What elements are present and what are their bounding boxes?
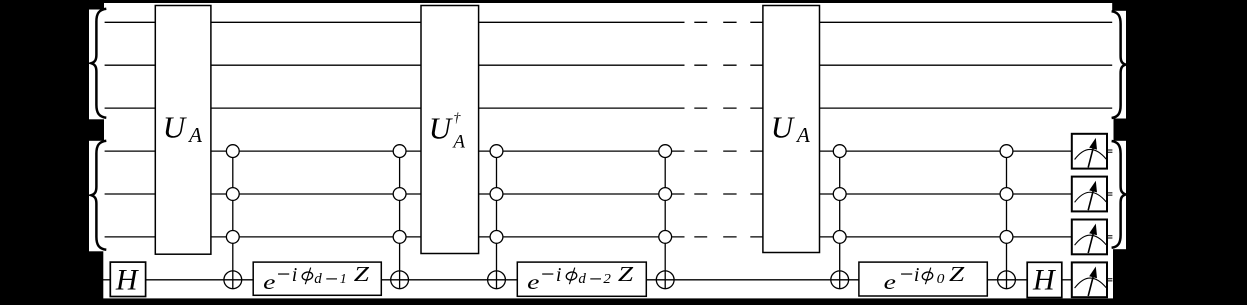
wire ancilla segment 2 bbox=[146, 279, 254, 281]
svg-text:0: 0 bbox=[937, 272, 945, 287]
control column 6 open circle on q4 bbox=[1000, 145, 1013, 158]
phase gate box e^-i*phi_(d-1)*Z bbox=[253, 262, 381, 295]
measurement meter M3 on q6 bbox=[1072, 220, 1107, 255]
svg-text:−: − bbox=[539, 262, 555, 288]
unitary box U_A-dagger bbox=[421, 6, 479, 254]
control column 1 open circle on q5 bbox=[226, 188, 239, 201]
wire q2 segment 2 bbox=[211, 64, 422, 66]
wire q2 segment 4 bbox=[819, 64, 1112, 66]
svg-text:d: d bbox=[314, 271, 322, 287]
wire q1 segment 1 bbox=[105, 21, 156, 23]
left curly brace lower group bbox=[91, 141, 106, 250]
wire ancilla segment 1 bbox=[103, 279, 111, 281]
svg-text:Z: Z bbox=[354, 262, 370, 286]
control column 1 vertical wire bbox=[232, 151, 234, 289]
black mask mid-right notch bbox=[1114, 119, 1127, 141]
control column 5 open circle on q4 bbox=[833, 145, 846, 158]
svg-text:i: i bbox=[556, 264, 562, 286]
right curly brace lower group bbox=[1112, 141, 1126, 248]
label e^-i*phi_(d-2)*Z bbox=[527, 262, 633, 294]
phase gate box e^-i*phi_(d-2)*Z bbox=[517, 262, 646, 296]
black mask right margin bbox=[1126, 0, 1247, 305]
wire q1 segment 2 bbox=[211, 21, 422, 23]
svg-text:e: e bbox=[527, 270, 539, 294]
measurement meter M1 on q4 bbox=[1072, 134, 1107, 169]
svg-text:H: H bbox=[1032, 264, 1057, 297]
classical double wire after M3 bbox=[1107, 236, 1112, 238]
control column 2 vertical wire bbox=[399, 151, 401, 289]
wire q2 dashed segment bbox=[694, 64, 763, 66]
svg-text:e: e bbox=[884, 270, 896, 294]
measurement meter M4 on ancilla bbox=[1072, 262, 1107, 297]
wire q5 dashed segment bbox=[694, 193, 763, 195]
control column 4 open circle on q5 bbox=[659, 188, 672, 201]
left curly brace upper group bbox=[91, 9, 106, 118]
svg-text:Z: Z bbox=[949, 262, 965, 286]
wire ancilla segment 3 bbox=[381, 279, 517, 281]
measurement meter M2 on q5 bbox=[1072, 177, 1107, 212]
control column 2 open circle on q4 bbox=[393, 145, 406, 158]
control column 3 vertical wire bbox=[496, 151, 498, 289]
wire q4 segment 4 bbox=[819, 150, 1072, 152]
svg-text:−: − bbox=[324, 267, 340, 292]
control column 6 open circle on q5 bbox=[1000, 188, 1013, 201]
wire ancilla segment 6 bbox=[1062, 279, 1072, 281]
control column 2 XOR target on ancilla bbox=[391, 271, 409, 289]
black mask mid-left notch bbox=[89, 119, 104, 141]
black mask bottom-left notch bbox=[89, 251, 103, 305]
control column 1 open circle on q4 bbox=[226, 145, 239, 158]
wire q6 segment 3 bbox=[478, 236, 684, 238]
wire q1 segment 4 bbox=[819, 21, 1112, 23]
svg-text:2: 2 bbox=[603, 271, 611, 286]
control column 5 XOR target on ancilla bbox=[831, 271, 849, 289]
wire q6 segment 1 bbox=[105, 236, 156, 238]
unitary box U_A second bbox=[763, 6, 820, 253]
wire q4 segment 1 bbox=[105, 150, 156, 152]
svg-text:A: A bbox=[451, 132, 465, 153]
svg-text:†: † bbox=[453, 111, 461, 126]
unitary box U_A first bbox=[155, 6, 211, 255]
wire q6 segment 4 bbox=[819, 236, 1072, 238]
control column 3 open circle on q5 bbox=[490, 188, 503, 201]
control column 5 open circle on q5 bbox=[833, 188, 846, 201]
wire q2 segment 3 bbox=[478, 64, 684, 66]
control column 4 open circle on q4 bbox=[659, 145, 672, 158]
wire q5 segment 2 bbox=[211, 193, 422, 195]
control column 3 open circle on q6 bbox=[490, 231, 503, 244]
classical double wire after M4 bbox=[1107, 279, 1112, 281]
svg-text:−: − bbox=[275, 262, 291, 288]
wire q3 segment 1 bbox=[105, 107, 156, 109]
wire q4 dashed segment bbox=[694, 150, 763, 152]
black mask top-left notch bbox=[89, 0, 104, 10]
wire q3 dashed segment bbox=[694, 107, 763, 109]
control column 4 open circle on q6 bbox=[659, 231, 672, 244]
svg-text:U: U bbox=[163, 110, 188, 145]
wire q6 segment 2 bbox=[211, 236, 422, 238]
classical double wire after M1 bbox=[1107, 150, 1112, 152]
svg-text:i: i bbox=[914, 264, 920, 286]
svg-text:−: − bbox=[898, 262, 914, 288]
black mask top-right notch bbox=[1112, 0, 1126, 11]
wire q5 segment 1 bbox=[105, 193, 156, 195]
svg-text:U: U bbox=[429, 110, 454, 145]
control column 2 open circle on q5 bbox=[393, 188, 406, 201]
control column 6 open circle on q6 bbox=[1000, 231, 1013, 244]
control column 4 vertical wire bbox=[664, 151, 666, 289]
wire q3 segment 4 bbox=[819, 107, 1112, 109]
svg-text:Z: Z bbox=[618, 262, 634, 286]
black mask top bar bbox=[0, 0, 1247, 3]
black mask bottom-right notch bbox=[1113, 249, 1126, 305]
control column 4 XOR target on ancilla bbox=[656, 271, 674, 289]
label e^-i*phi_0*Z bbox=[884, 262, 965, 294]
control column 5 open circle on q6 bbox=[833, 231, 846, 244]
control column 3 XOR target on ancilla bbox=[488, 271, 506, 289]
wire q6 dashed segment bbox=[694, 236, 763, 238]
svg-text:e: e bbox=[263, 270, 275, 294]
wire ancilla segment 5 bbox=[987, 279, 1027, 281]
wire ancilla segment 4 bbox=[646, 279, 859, 281]
svg-text:−: − bbox=[588, 267, 604, 292]
control column 1 XOR target on ancilla bbox=[224, 271, 242, 289]
phase gate box e^-i*phi_0*Z bbox=[859, 262, 987, 296]
wire q4 segment 2 bbox=[211, 150, 422, 152]
control column 6 vertical wire bbox=[1006, 151, 1008, 289]
control column 1 open circle on q6 bbox=[226, 231, 239, 244]
black mask bottom bar bbox=[0, 298, 1247, 305]
black mask left margin bbox=[0, 0, 89, 305]
control column 6 XOR target on ancilla bbox=[998, 271, 1016, 289]
label e^-i*phi_(d-1)*Z bbox=[263, 262, 369, 294]
svg-text:d: d bbox=[578, 271, 586, 287]
control column 2 open circle on q6 bbox=[393, 231, 406, 244]
svg-text:1: 1 bbox=[340, 271, 347, 286]
Hadamard gate H second bbox=[1027, 262, 1062, 297]
wire q3 segment 2 bbox=[211, 107, 422, 109]
svg-text:A: A bbox=[795, 123, 810, 147]
wire q5 segment 4 bbox=[819, 193, 1072, 195]
svg-text:i: i bbox=[292, 264, 298, 286]
classical double wire after M2 bbox=[1107, 193, 1112, 195]
wire q3 segment 3 bbox=[478, 107, 684, 109]
wire q1 dashed segment bbox=[694, 21, 763, 23]
svg-text:H: H bbox=[115, 263, 140, 296]
svg-text:A: A bbox=[187, 123, 202, 147]
wire q1 segment 3 bbox=[478, 21, 684, 23]
wire q4 segment 3 bbox=[478, 150, 684, 152]
control column 5 vertical wire bbox=[839, 151, 841, 289]
wire q5 segment 3 bbox=[478, 193, 684, 195]
control column 3 open circle on q4 bbox=[490, 145, 503, 158]
wire q2 segment 1 bbox=[105, 64, 156, 66]
Hadamard gate H first bbox=[110, 262, 145, 296]
right curly brace upper group bbox=[1112, 11, 1126, 118]
svg-text:U: U bbox=[771, 110, 796, 145]
